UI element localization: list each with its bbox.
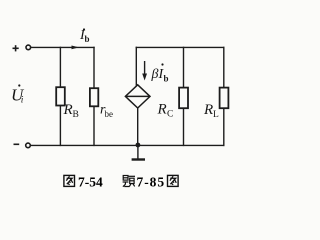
- svg-text:R: R: [203, 102, 213, 118]
- svg-text:R: R: [63, 102, 73, 118]
- svg-text:C: C: [167, 109, 173, 119]
- svg-text:βI: βI: [151, 67, 165, 82]
- svg-text:L: L: [213, 110, 219, 120]
- svg-text:b: b: [164, 74, 169, 84]
- svg-text:B: B: [73, 110, 79, 120]
- svg-text:be: be: [105, 109, 114, 119]
- svg-text:7-85: 7-85: [137, 175, 166, 190]
- svg-text:R: R: [157, 101, 167, 117]
- svg-text:b: b: [85, 34, 90, 44]
- svg-text:i: i: [21, 95, 24, 105]
- svg-text:7-54: 7-54: [78, 175, 103, 190]
